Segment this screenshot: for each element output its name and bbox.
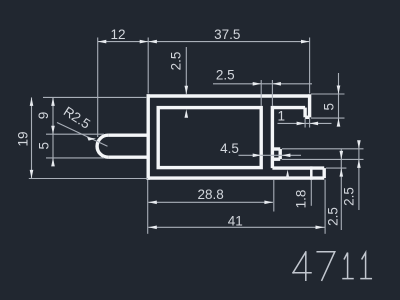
svg-text:28.8: 28.8: [197, 187, 223, 202]
svg-text:1: 1: [278, 109, 286, 124]
svg-text:2.5: 2.5: [342, 187, 357, 206]
svg-text:37.5: 37.5: [214, 27, 240, 42]
svg-text:19: 19: [16, 131, 31, 146]
svg-text:2.5: 2.5: [216, 67, 235, 82]
svg-text:5: 5: [322, 103, 337, 111]
svg-text:2.5: 2.5: [169, 52, 184, 71]
svg-text:41: 41: [228, 214, 243, 229]
svg-text:5: 5: [37, 142, 52, 150]
svg-text:4.5: 4.5: [220, 141, 239, 156]
svg-text:9: 9: [36, 112, 51, 120]
svg-text:1.8: 1.8: [294, 190, 309, 209]
svg-text:12: 12: [110, 27, 125, 42]
svg-text:2.5: 2.5: [326, 207, 341, 226]
